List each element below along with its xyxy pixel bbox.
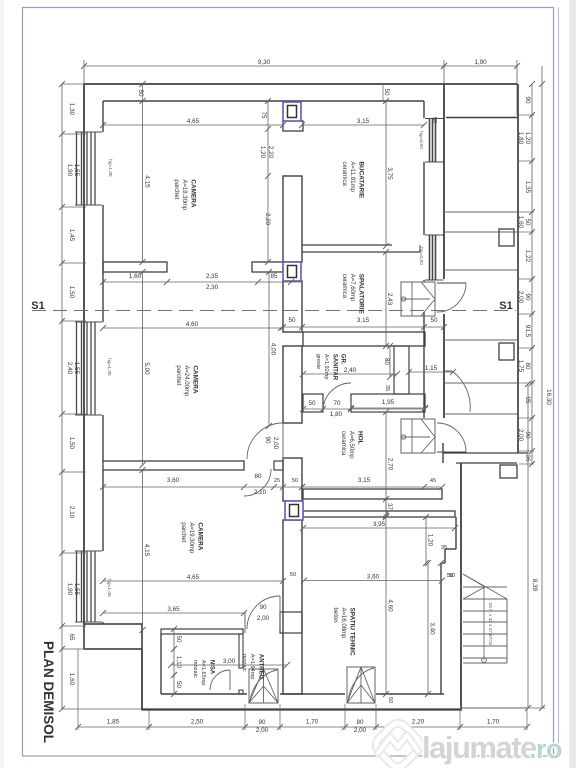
svg-text:80: 80 bbox=[356, 719, 364, 726]
svg-text:1,90: 1,90 bbox=[474, 59, 487, 66]
spine wall segment y176-262 bbox=[283, 176, 302, 262]
svg-text:2,40: 2,40 bbox=[344, 367, 357, 374]
wall: hol south band bbox=[303, 489, 442, 499]
svg-text:3,75: 3,75 bbox=[386, 167, 393, 180]
svg-text:36: 36 bbox=[524, 454, 531, 462]
svg-text:50: 50 bbox=[430, 317, 438, 324]
svg-text:A=1,92mp: A=1,92mp bbox=[323, 354, 329, 380]
dim line y487 right bbox=[302, 486, 442, 488]
center dim line x268 bbox=[267, 101, 269, 262]
wall: camera3 north stub bbox=[274, 461, 283, 470]
svg-text:2,10: 2,10 bbox=[254, 489, 267, 496]
dim 2,70 hol height bbox=[385, 412, 387, 516]
svg-text:ceramica: ceramica bbox=[340, 431, 346, 456]
exterior staircase 15 treads bbox=[463, 586, 507, 588]
dim 5,00 camera2 height bbox=[142, 272, 144, 465]
svg-text:parchet: parchet bbox=[173, 179, 179, 199]
svg-text:2,50: 2,50 bbox=[191, 719, 204, 726]
dim line 16,30 bbox=[541, 66, 543, 708]
svg-text:BUCATARIE: BUCATARIE bbox=[357, 161, 364, 198]
wall: bottom inner face seg3 bbox=[376, 693, 444, 695]
svg-text:2,30: 2,30 bbox=[206, 284, 219, 291]
spine wall stub below top window bbox=[283, 121, 303, 131]
bottom dimension chain bbox=[78, 726, 527, 728]
wall: spatiu tehnic inner jog1 bbox=[445, 548, 456, 550]
dim 80 sanitar bbox=[389, 346, 391, 377]
svg-text:50: 50 bbox=[292, 478, 298, 484]
dim 2,43 spalatorie height bbox=[385, 252, 387, 346]
dim extension top wing bbox=[516, 60, 518, 115]
wall: left inner face seg3 bbox=[102, 415, 104, 461]
svg-text:50: 50 bbox=[175, 681, 182, 689]
wall: right outer seg2 bbox=[443, 314, 445, 418]
door arc antreu north bbox=[247, 596, 280, 629]
wall: bottom-left vertical inner bbox=[160, 634, 162, 694]
wall: right inner seg2 bbox=[423, 162, 425, 235]
dim 50 nisa bottom bbox=[173, 675, 175, 694]
svg-text:1,30: 1,30 bbox=[68, 103, 75, 116]
door arc camera3 bbox=[244, 469, 271, 496]
svg-text:3,15: 3,15 bbox=[358, 477, 371, 484]
wall: gr sanitar east vertical bbox=[394, 346, 409, 394]
wall: right wing top inner face bbox=[446, 117, 517, 119]
svg-text:1,85: 1,85 bbox=[107, 719, 120, 726]
svg-text:4,15: 4,15 bbox=[144, 175, 151, 188]
svg-text:1,55: 1,55 bbox=[73, 164, 80, 177]
wall: spatiu tehnic inner right seg1 bbox=[455, 517, 457, 549]
wall: left outer face bbox=[83, 84, 85, 624]
wall: bottom inner face seg2 bbox=[280, 693, 345, 695]
window hatch right 1 hg=0,80 bbox=[425, 119, 444, 163]
wall: right inner seg1 bbox=[423, 101, 425, 118]
dim 50 nisa top bbox=[173, 629, 175, 649]
blue window symbol top bbox=[283, 102, 301, 121]
svg-text:1,35: 1,35 bbox=[524, 181, 531, 194]
door leaf+arc spalatorie east bbox=[437, 282, 466, 284]
svg-text:4,60: 4,60 bbox=[387, 599, 394, 612]
right dimension chain line bbox=[531, 84, 533, 464]
wall: right wing outer face bbox=[517, 84, 519, 453]
svg-text:lajumate: lajumate bbox=[422, 730, 537, 765]
svg-text:1,20: 1,20 bbox=[524, 132, 531, 145]
svg-text:2,20: 2,20 bbox=[412, 719, 425, 726]
dim 4,65 camera1 bbox=[103, 124, 283, 126]
svg-text:CAMERA: CAMERA bbox=[189, 179, 196, 207]
left dimension chain line bbox=[61, 84, 63, 709]
svg-text:50: 50 bbox=[288, 317, 296, 324]
blue window symbol lower bbox=[285, 501, 303, 520]
svg-text:3,60: 3,60 bbox=[367, 573, 380, 580]
wall: bottom inner face seg1 bbox=[161, 693, 247, 695]
wall: bucatarie south band bbox=[302, 244, 392, 246]
svg-text:2,20: 2,20 bbox=[264, 213, 271, 226]
svg-text:4,00: 4,00 bbox=[270, 343, 277, 356]
wall: bottom-left vertical outer bbox=[141, 649, 143, 711]
svg-text:1,75: 1,75 bbox=[517, 360, 524, 373]
svg-text:A=24,00mp: A=24,00mp bbox=[183, 365, 189, 397]
wall A stub left (camera1 south) bbox=[103, 262, 167, 272]
svg-text:PLAN DEMISOL: PLAN DEMISOL bbox=[41, 641, 56, 743]
shaft square 2 bbox=[499, 343, 514, 360]
svg-text:15 tr. x 33 x 17,67cm: 15 tr. x 33 x 17,67cm bbox=[488, 603, 493, 646]
svg-text:parchet: parchet bbox=[180, 522, 186, 542]
door arc nisa bbox=[210, 670, 230, 690]
svg-text:3,60: 3,60 bbox=[167, 477, 180, 484]
svg-text:3,40: 3,40 bbox=[429, 622, 436, 635]
svg-text:hg=1,05: hg=1,05 bbox=[107, 159, 113, 177]
wall: spatiu tehnic inner jog3 bbox=[441, 562, 445, 564]
svg-text:A=1,65mp: A=1,65mp bbox=[200, 660, 206, 686]
svg-text:8,39: 8,39 bbox=[531, 579, 538, 592]
svg-text:A=7,60mp: A=7,60mp bbox=[349, 274, 355, 302]
svg-text:9,30: 9,30 bbox=[258, 59, 271, 66]
svg-text:A=19,30mp: A=19,30mp bbox=[188, 522, 194, 554]
svg-text:1,90: 1,90 bbox=[66, 164, 73, 177]
svg-text:1,60: 1,60 bbox=[68, 673, 75, 686]
svg-text:4,60: 4,60 bbox=[186, 321, 199, 328]
wall: step band upper line bbox=[443, 452, 528, 454]
svg-text:SPATIU TEHNIC: SPATIU TEHNIC bbox=[348, 608, 355, 656]
wall: spatiu tehnic outer right bbox=[460, 463, 462, 708]
svg-text:16,30: 16,30 bbox=[545, 389, 552, 405]
svg-text:mozaic: mozaic bbox=[241, 654, 247, 672]
svg-text:4,65: 4,65 bbox=[187, 118, 200, 125]
shaft square 1 bbox=[499, 229, 514, 246]
door leaf+arc hol east bbox=[437, 451, 466, 453]
svg-text:4,65: 4,65 bbox=[187, 574, 200, 581]
svg-text:mozaic: mozaic bbox=[192, 660, 198, 678]
svg-text:50: 50 bbox=[383, 88, 390, 96]
svg-text:2,70: 2,70 bbox=[387, 458, 394, 471]
svg-text:50: 50 bbox=[175, 635, 182, 643]
dim line y487 left bbox=[103, 486, 302, 488]
svg-text:1,95: 1,95 bbox=[382, 399, 395, 406]
dim 4,00 spine height bbox=[268, 272, 270, 426]
svg-text:SPALATORIE: SPALATORIE bbox=[357, 274, 364, 315]
dim 3,00 nisa width bbox=[171, 664, 287, 666]
section line S1 dashed bbox=[32, 310, 516, 312]
svg-text:hg=1,05: hg=1,05 bbox=[106, 579, 112, 597]
wall A stub right bbox=[252, 262, 283, 272]
svg-text:2,00: 2,00 bbox=[272, 437, 279, 450]
svg-text:A=6,50mp: A=6,50mp bbox=[348, 431, 354, 459]
wall: bottom-left block bbox=[84, 624, 142, 649]
svg-text:90: 90 bbox=[524, 293, 531, 301]
svg-text:gresie: gresie bbox=[315, 354, 321, 369]
svg-text:65: 65 bbox=[68, 633, 75, 641]
svg-text:70: 70 bbox=[333, 400, 341, 407]
dim 4,15 camera3 height bbox=[142, 470, 144, 630]
svg-text:1,50: 1,50 bbox=[68, 437, 75, 450]
window hatch right 2 hg=0,80 bbox=[425, 235, 444, 280]
svg-text:90: 90 bbox=[524, 431, 531, 439]
spine wall segment y346-423 bbox=[283, 346, 302, 423]
svg-text:1,80: 1,80 bbox=[517, 132, 524, 145]
entrance door spatiu tehnic with steps bbox=[347, 667, 375, 703]
wall: step band lower line bbox=[456, 462, 517, 464]
svg-text:3,15: 3,15 bbox=[357, 118, 370, 125]
wall: camera3 north band bbox=[103, 461, 244, 470]
svg-text:A=11,81mp: A=11,81mp bbox=[349, 161, 355, 192]
svg-text:2,00: 2,00 bbox=[517, 429, 524, 442]
svg-text:A=16,08mp: A=16,08mp bbox=[340, 608, 346, 640]
svg-text:1,45: 1,45 bbox=[68, 229, 75, 242]
wall: step band left vertical bbox=[442, 443, 444, 463]
svg-text:2,00: 2,00 bbox=[257, 615, 270, 622]
svg-text:1,60: 1,60 bbox=[517, 216, 524, 229]
dim 4,15 camera1 height bbox=[142, 101, 144, 262]
dim 1,20 niche bbox=[425, 517, 427, 563]
svg-text:CAMERA: CAMERA bbox=[196, 522, 203, 550]
svg-text:1,15: 1,15 bbox=[425, 365, 438, 372]
wall: bottom right thin ledge bbox=[462, 707, 527, 709]
svg-text:1,50: 1,50 bbox=[68, 286, 75, 299]
svg-text:A=1,94mp: A=1,94mp bbox=[249, 654, 255, 680]
svg-text:50: 50 bbox=[387, 697, 393, 703]
dim line y282 bbox=[103, 281, 302, 283]
wall: left inner face seg5 bbox=[102, 622, 104, 624]
spine wall segment y520-694 bbox=[283, 520, 302, 694]
svg-text:2,43: 2,43 bbox=[386, 293, 393, 306]
svg-text:50: 50 bbox=[524, 218, 531, 226]
svg-text:2,00: 2,00 bbox=[517, 291, 524, 304]
svg-text:hg=1,05: hg=1,05 bbox=[106, 358, 112, 376]
svg-text:1,80: 1,80 bbox=[330, 411, 343, 418]
svg-text:80: 80 bbox=[383, 358, 390, 366]
right strip line y383 bbox=[444, 382, 518, 384]
dim line y327 right bbox=[283, 326, 444, 328]
wall: right outer seg1 bbox=[443, 84, 445, 279]
wall: left inner face seg4 bbox=[102, 470, 104, 551]
dim 3,65 nisa row bbox=[103, 612, 244, 614]
svg-text:50: 50 bbox=[308, 400, 316, 407]
wall: gr sanitar south band left bbox=[303, 394, 323, 412]
svg-text:90: 90 bbox=[259, 604, 267, 611]
svg-text:SANITAR: SANITAR bbox=[331, 354, 337, 381]
wall: spatiu tehnic north band bbox=[303, 511, 455, 517]
svg-text:1,10: 1,10 bbox=[175, 656, 182, 669]
svg-text:1,55: 1,55 bbox=[73, 583, 80, 596]
svg-text:50: 50 bbox=[449, 573, 455, 579]
dim 9,30 bbox=[84, 65, 444, 67]
svg-text:3,95: 3,95 bbox=[373, 521, 386, 528]
wall: bottom outer face bbox=[142, 708, 462, 710]
svg-text:A=19,30mp: A=19,30mp bbox=[181, 179, 187, 211]
svg-text:50: 50 bbox=[290, 572, 296, 578]
svg-text:35: 35 bbox=[441, 545, 447, 551]
dim line 8,39 bbox=[527, 384, 529, 708]
wall: top outer face bbox=[84, 83, 518, 85]
dim line y409 bbox=[303, 408, 425, 410]
dim 4,65 camera3 width bbox=[103, 580, 283, 582]
svg-text:90: 90 bbox=[264, 436, 271, 444]
dim 3,40 spatiu inner bbox=[427, 563, 429, 694]
svg-text:91,5: 91,5 bbox=[524, 325, 531, 338]
svg-text:2,00: 2,00 bbox=[256, 727, 269, 734]
dim extension top left bbox=[83, 60, 85, 84]
svg-text:HOL: HOL bbox=[356, 431, 363, 445]
svg-text:2,35: 2,35 bbox=[206, 273, 219, 280]
right strip line y414 bbox=[444, 413, 518, 415]
svg-text:hg=0,80: hg=0,80 bbox=[418, 247, 424, 265]
dim 1,15 sanitar door bbox=[409, 371, 453, 373]
svg-text:85: 85 bbox=[270, 273, 278, 280]
svg-text:37: 37 bbox=[386, 503, 393, 511]
svg-text:35: 35 bbox=[384, 385, 390, 391]
svg-text:1,20: 1,20 bbox=[427, 534, 434, 547]
wall: spatiu tehnic inner jog2 bbox=[444, 549, 446, 563]
window hatch left 1 hg=1,05 bbox=[76, 132, 78, 205]
wall: gr sanitar south band right bbox=[351, 394, 425, 412]
svg-text:hg=0,80: hg=0,80 bbox=[418, 131, 424, 149]
svg-text:50: 50 bbox=[431, 117, 437, 123]
svg-text:45: 45 bbox=[430, 478, 436, 484]
wall: antreu north sliver bbox=[244, 612, 246, 633]
dim 4,60 spatiu height bbox=[385, 517, 387, 694]
svg-text:ceramica: ceramica bbox=[341, 161, 347, 186]
svg-text:1,90: 1,90 bbox=[66, 583, 73, 596]
svg-text:90: 90 bbox=[258, 719, 266, 726]
svg-text:80: 80 bbox=[254, 473, 262, 480]
wall: top inner face bbox=[103, 100, 424, 102]
svg-text:2,40: 2,40 bbox=[66, 362, 73, 375]
svg-text:S1: S1 bbox=[31, 300, 44, 312]
svg-text:parchet: parchet bbox=[175, 365, 181, 385]
svg-text:80: 80 bbox=[524, 362, 531, 370]
svg-text:2,10: 2,10 bbox=[68, 506, 75, 519]
dim 3,60 spatiu upper bbox=[304, 580, 442, 582]
scan edge right strip bbox=[569, 0, 576, 768]
door arc gr sanitar bbox=[323, 383, 351, 411]
svg-text:5,00: 5,00 bbox=[143, 362, 150, 375]
watermark lajumate.ro bbox=[373, 720, 424, 768]
svg-text:beton: beton bbox=[332, 608, 338, 623]
wall: left inner face seg1 bbox=[102, 101, 104, 132]
wall: nisa north band bbox=[161, 629, 243, 634]
door arc camera2-hol bbox=[247, 423, 283, 459]
blue window symbol middle bbox=[283, 262, 301, 281]
blue sheet frame second right line bbox=[558, 8, 560, 757]
dim 3,75 bucatarie height bbox=[385, 101, 387, 246]
svg-text:1,22: 1,22 bbox=[524, 250, 531, 263]
svg-text:90: 90 bbox=[524, 96, 531, 104]
right strip line y340 bbox=[444, 339, 518, 341]
svg-text:4,15: 4,15 bbox=[143, 544, 150, 557]
dim 1,10 nisa bbox=[173, 649, 175, 675]
wall: right inner seg4 bbox=[423, 312, 425, 418]
svg-text:ANTREU: ANTREU bbox=[257, 654, 263, 679]
wall: right inner seg3 bbox=[423, 280, 425, 282]
svg-text:S1: S1 bbox=[499, 300, 512, 312]
door steps hol east bbox=[401, 419, 435, 453]
right strip line y270 bbox=[444, 269, 518, 271]
svg-text:3,65: 3,65 bbox=[167, 606, 180, 613]
svg-text:95: 95 bbox=[524, 396, 531, 404]
wall: left inner face seg2 bbox=[102, 205, 104, 322]
svg-text:1,20: 1,20 bbox=[259, 146, 266, 159]
svg-text:ceramica: ceramica bbox=[341, 274, 347, 299]
dim 3,15 bucatarie bbox=[302, 124, 424, 126]
wall: antreu north block bbox=[280, 612, 302, 633]
entrance door antreu with steps bbox=[249, 669, 278, 703]
svg-text:NISA: NISA bbox=[208, 660, 214, 675]
dim extension top right main bbox=[443, 60, 445, 84]
svg-text:50: 50 bbox=[137, 89, 144, 97]
window hatch left 2 hg=1,05 bbox=[76, 322, 78, 415]
svg-text:3,00: 3,00 bbox=[223, 658, 236, 665]
wall: spalatorie south band bbox=[303, 332, 425, 346]
right bottom dim extension bbox=[461, 707, 545, 709]
wall: nisa-antreu divider seg2 bbox=[239, 690, 243, 694]
svg-text:75: 75 bbox=[260, 111, 267, 119]
svg-text:2,20: 2,20 bbox=[267, 146, 274, 159]
svg-text:.ro: .ro bbox=[529, 734, 562, 764]
window hatch left 3 hg=1,05 bbox=[76, 551, 78, 622]
dim 3,95 spatiu width bbox=[303, 527, 455, 529]
dim 1,90 wing bbox=[444, 65, 517, 67]
svg-text:1,70: 1,70 bbox=[306, 719, 319, 726]
svg-text:1,70: 1,70 bbox=[487, 719, 500, 726]
dim 37 between walls bbox=[385, 499, 387, 514]
dim 2,40 sanitar bbox=[303, 373, 397, 375]
wall: spatiu tehnic inner right seg2 bbox=[440, 563, 442, 694]
door steps spalatorie east bbox=[401, 282, 435, 316]
spine wall segment y458-501 bbox=[283, 458, 302, 501]
dim 4,60 camera2 bbox=[103, 327, 281, 329]
shaft square 3 bbox=[500, 465, 517, 478]
spine wall segment y281-332 bbox=[283, 281, 302, 332]
svg-text:2,00: 2,00 bbox=[354, 727, 367, 734]
svg-text:1,60: 1,60 bbox=[129, 273, 142, 280]
svg-text:GR.: GR. bbox=[340, 354, 346, 365]
wall: nisa-antreu divider seg1 bbox=[239, 634, 243, 668]
svg-text:25: 25 bbox=[274, 478, 280, 484]
door arc gr sanitar east bbox=[452, 371, 470, 412]
svg-text:1,55: 1,55 bbox=[73, 362, 80, 375]
svg-text:3,15: 3,15 bbox=[357, 317, 370, 324]
right strip line y232 bbox=[444, 231, 518, 233]
right strip line y212 bbox=[444, 211, 518, 213]
svg-text:CAMERA: CAMERA bbox=[191, 365, 198, 393]
